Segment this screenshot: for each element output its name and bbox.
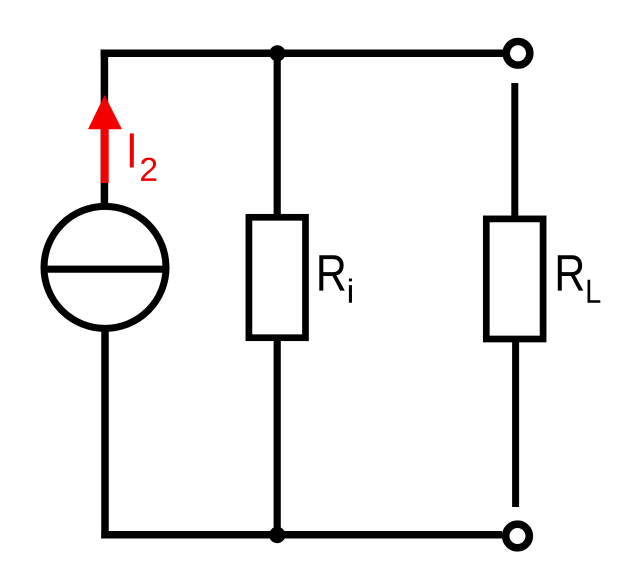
resistor RL body xyxy=(486,219,543,339)
terminal node B (bottom-right open circle) xyxy=(506,524,530,548)
current arrow shaft I2 (red) xyxy=(101,126,109,183)
wire top horizontal from corner to top terminal xyxy=(101,50,504,58)
label I2 xyxy=(130,133,157,181)
terminal node A (top-right open circle) xyxy=(506,42,530,66)
current source I2 (circle symbol) xyxy=(44,206,166,328)
wire from top terminal down to resistor RL xyxy=(511,83,518,220)
wire from resistor RL down to bottom terminal xyxy=(512,337,519,507)
node top junction xyxy=(269,45,285,61)
wire from top node down to resistor Ri xyxy=(274,53,281,219)
node bottom junction xyxy=(269,527,285,543)
wire bottom horizontal from corner to bottom terminal xyxy=(101,531,502,539)
label RL xyxy=(558,255,600,302)
current arrow head I2 (red) xyxy=(88,95,122,129)
resistor Ri body xyxy=(249,217,306,337)
label Ri xyxy=(319,255,352,302)
current source I2 horizontal bar xyxy=(42,266,169,273)
wire from resistor Ri down to bottom node xyxy=(274,336,281,535)
wire vertical from current source up to top-left corner xyxy=(101,50,109,205)
wire vertical from current source down to bottom-left corner xyxy=(101,325,109,538)
